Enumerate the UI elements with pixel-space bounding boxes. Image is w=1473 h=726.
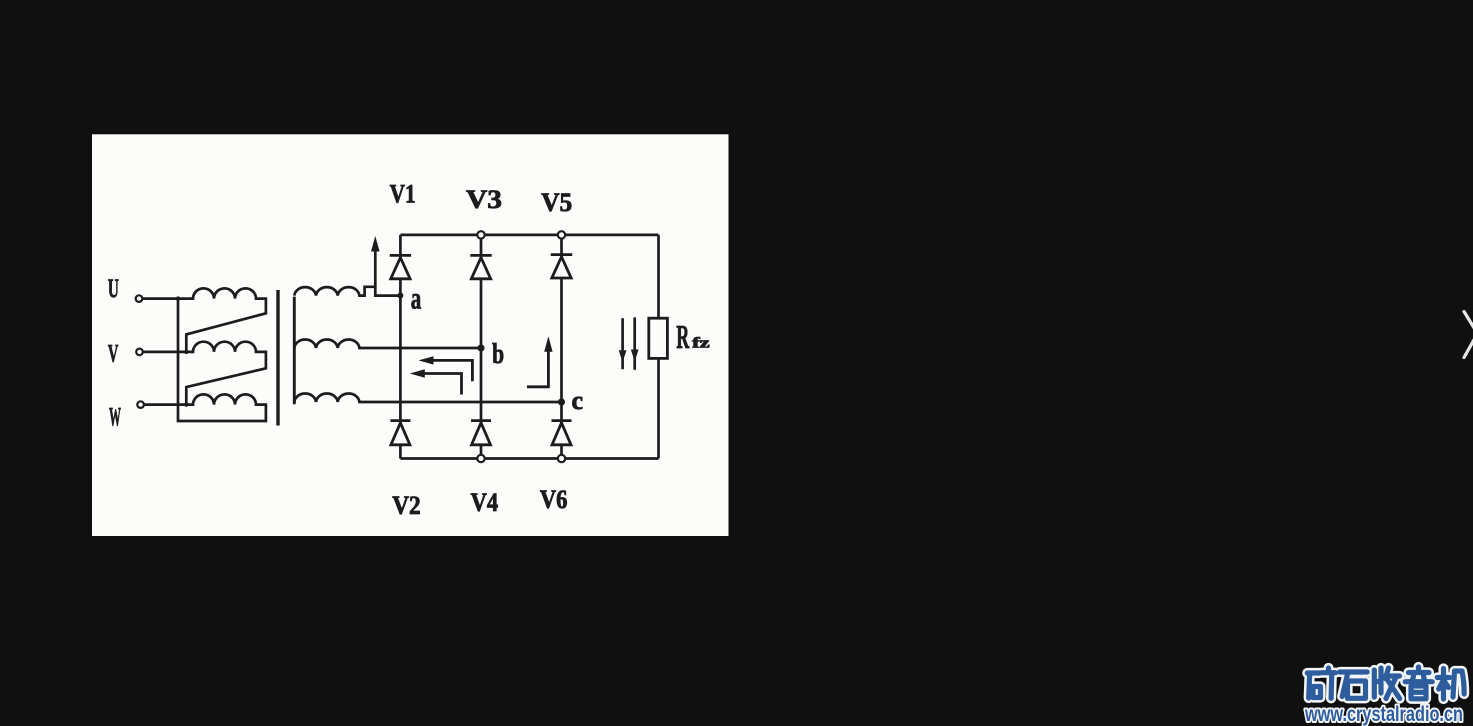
svg-text:V3: V3 xyxy=(466,185,502,214)
diode V1 xyxy=(390,255,411,278)
diode V6 xyxy=(552,421,572,445)
connector circle bottom V6 xyxy=(558,455,565,462)
secondary star bus xyxy=(293,297,296,405)
svg-text:a: a xyxy=(411,281,422,316)
connector circle top V3 xyxy=(477,231,484,238)
diode V3 xyxy=(470,255,491,278)
wire branch V3/V4 xyxy=(480,235,483,459)
svg-text:V6: V6 xyxy=(540,485,568,514)
wire W input xyxy=(144,403,186,406)
wire load branch xyxy=(657,235,660,459)
secondary winding a (top coil) xyxy=(294,287,400,296)
svg-text:V: V xyxy=(108,340,119,367)
current arrow b upper xyxy=(432,360,472,381)
svg-text:V1: V1 xyxy=(390,179,416,208)
wire V input xyxy=(143,351,187,354)
svg-text:R: R xyxy=(676,319,689,356)
svg-text:fz: fz xyxy=(692,335,710,351)
junction V xyxy=(184,350,188,354)
connector circle top V5 xyxy=(558,231,565,238)
node c xyxy=(558,398,565,405)
resistor Rfz xyxy=(649,318,668,358)
current arrow c xyxy=(527,350,548,387)
wire branch V5/V6 xyxy=(560,235,563,459)
wire U input xyxy=(142,297,178,300)
diode V2 xyxy=(390,421,410,445)
svg-text:V4: V4 xyxy=(471,488,499,517)
svg-text:c: c xyxy=(572,386,584,415)
secondary winding b (middle coil) xyxy=(294,339,481,348)
current arrow load 2 xyxy=(633,317,636,369)
white schematic card xyxy=(92,134,1473,726)
diode V5 xyxy=(551,255,572,278)
svg-text:U: U xyxy=(108,274,119,303)
wire branch V1/V2 xyxy=(399,235,402,459)
junction U xyxy=(176,296,180,300)
svg-text:www.crystalradio.cn: www.crystalradio.cn xyxy=(1304,703,1463,726)
transformer core xyxy=(276,290,279,426)
node a xyxy=(397,293,403,299)
current arrow b lower xyxy=(423,374,462,395)
svg-text:b: b xyxy=(492,338,504,370)
terminal U circle xyxy=(136,295,143,302)
primary winding U (top coil) xyxy=(178,288,266,351)
junction W xyxy=(184,402,188,406)
primary winding W (bottom coil) xyxy=(178,299,266,421)
wire top bus xyxy=(400,234,658,237)
connector circle bottom V4 xyxy=(477,455,484,462)
carousel next chevron xyxy=(1464,312,1473,358)
secondary winding c (bottom coil) xyxy=(294,393,561,402)
wire bottom bus xyxy=(400,457,658,460)
svg-text:V5: V5 xyxy=(541,188,572,217)
terminal V circle xyxy=(136,349,143,356)
current arrow phase a xyxy=(374,249,377,287)
current arrow load 1 xyxy=(621,318,624,369)
primary winding V (middle coil) xyxy=(186,342,266,405)
svg-text:V2: V2 xyxy=(392,491,421,520)
diode V4 xyxy=(471,421,491,445)
node b xyxy=(477,344,484,351)
svg-text:W: W xyxy=(109,403,121,432)
terminal W circle xyxy=(137,401,144,408)
